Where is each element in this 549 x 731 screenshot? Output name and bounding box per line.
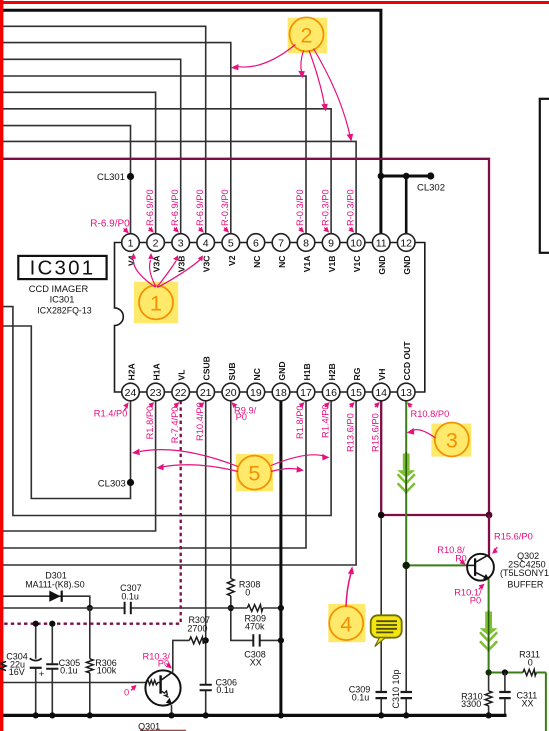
wire Q301 emitter to bus <box>171 705 173 714</box>
svg-text:0.1u: 0.1u <box>216 685 234 695</box>
svg-text:18: 18 <box>275 387 287 399</box>
transistor Q302 <box>467 554 494 581</box>
resistor R310 <box>485 691 492 706</box>
svg-text:SUB: SUB <box>227 362 237 380</box>
svg-text:Q301: Q301 <box>138 721 160 731</box>
label R-6.9/P0 pin4 <box>195 189 205 232</box>
svg-text:2700: 2700 <box>187 623 207 633</box>
svg-text:R-6.9/P0: R-6.9/P0 <box>90 218 130 229</box>
svg-text:XX: XX <box>250 658 262 668</box>
balloon 1 <box>134 282 178 324</box>
wire pin17 H1B from left edge <box>3 401 306 548</box>
wire maroon to Q302 collector <box>488 515 489 556</box>
svg-text:RG: RG <box>352 367 362 380</box>
wire C305 branch down <box>51 624 53 714</box>
svg-text:7: 7 <box>278 237 284 249</box>
junction pin13-Q302 base <box>403 562 410 569</box>
svg-text:11: 11 <box>376 237 387 249</box>
svg-text:R15.6/P0: R15.6/P0 <box>494 532 533 542</box>
svg-text:H2B: H2B <box>327 363 337 380</box>
wire pin18 GND down thick <box>279 401 282 717</box>
wire R310 branch <box>488 673 490 715</box>
connector box right edge <box>540 99 549 253</box>
wire pin22 VL dashed <box>3 401 181 624</box>
svg-text:H1B: H1B <box>302 363 312 380</box>
junction VH corner <box>378 512 385 519</box>
svg-text:P0: P0 <box>236 412 247 422</box>
capacitor C304 (electrolytic) <box>30 658 42 668</box>
transistor Q301 <box>145 670 180 705</box>
junction bus-C305 <box>49 712 55 718</box>
wire GND link pins 11-12 to CL302 <box>381 175 431 178</box>
capacitor C310 <box>401 692 413 698</box>
junction C308-GND <box>278 637 284 643</box>
junction bus-C306 <box>203 712 209 718</box>
flow arrow green on buffer output <box>480 612 498 636</box>
balloon 2 <box>288 17 327 53</box>
svg-text:20: 20 <box>225 387 237 399</box>
label R10.1/P0 Q302 emitter <box>454 584 484 606</box>
wire Q302 emitter green down <box>488 579 490 673</box>
svg-text:6: 6 <box>253 237 259 249</box>
svg-text:R-7.4/P0: R-7.4/P0 <box>170 406 180 443</box>
svg-text:0: 0 <box>245 588 250 598</box>
label R-0.3/P0 pin8 <box>295 189 305 232</box>
balloon 1 arrows to pins 1-4 <box>133 260 200 288</box>
junction bus-Q301 emitter <box>168 712 174 718</box>
svg-text:3300: 3300 <box>461 699 481 709</box>
node CL301 <box>127 173 134 180</box>
bus GND bottom thick <box>3 714 507 717</box>
label R1.8/P0 pin23 <box>145 402 155 439</box>
wire pin14 VH lower branch to C309 <box>380 515 382 714</box>
IC301 pins top row circles <box>122 234 415 252</box>
clipped text fragment bottom edge <box>140 730 186 731</box>
svg-text:0.1u: 0.1u <box>121 591 139 601</box>
svg-text:CL303: CL303 <box>98 479 126 490</box>
junction C311-R311 <box>502 669 508 675</box>
svg-text:2: 2 <box>153 237 159 249</box>
svg-text:21: 21 <box>200 387 212 399</box>
IC301 designator box <box>18 256 106 279</box>
wire Q301 base line from left edge <box>3 682 146 684</box>
svg-text:8: 8 <box>303 237 309 249</box>
svg-text:23: 23 <box>150 387 162 399</box>
wire output green down right corner <box>545 673 547 731</box>
svg-text:H1A: H1A <box>152 363 162 380</box>
IC301 pin numbers top row 1-12 <box>128 237 413 249</box>
svg-text:9: 9 <box>328 237 334 249</box>
resistor R308 <box>227 579 234 596</box>
svg-text:CL302: CL302 <box>417 183 445 194</box>
label R1.4/P0 pin24 <box>94 402 129 418</box>
junction bus-R310 <box>486 712 492 718</box>
wire pin3 V3B from left edge <box>3 59 181 234</box>
svg-text:3: 3 <box>178 237 184 249</box>
label R13.6/P0 pin15 <box>345 402 355 452</box>
svg-text:V3C: V3C <box>202 256 212 273</box>
svg-text:BUFFER: BUFFER <box>507 580 544 590</box>
svg-text:5: 5 <box>248 462 260 486</box>
IC301 pin names bottom row <box>127 341 413 381</box>
node CL303 <box>127 479 134 486</box>
svg-text:H2A: H2A <box>127 363 137 380</box>
wire pin1 V4 from left edge <box>3 126 131 234</box>
balloon 4 arrow to RG wire <box>346 566 354 606</box>
junction maroon right <box>486 512 493 519</box>
op-amp U1 IC301 body <box>115 243 425 393</box>
junction bus-C304 <box>33 712 39 718</box>
balloon 2 arrows to V-clock wires <box>238 45 350 136</box>
svg-text:13: 13 <box>400 387 412 399</box>
svg-text:4: 4 <box>203 237 209 249</box>
svg-text:IC301: IC301 <box>30 257 96 280</box>
svg-text:V2: V2 <box>227 255 237 266</box>
label R-6.9/P0 pin2 <box>145 189 155 232</box>
wire R306 branch down <box>89 608 91 714</box>
svg-text:V3B: V3B <box>177 256 187 273</box>
svg-text:5: 5 <box>228 237 234 249</box>
svg-text:P0: P0 <box>470 596 481 606</box>
svg-text:0: 0 <box>124 687 129 697</box>
svg-text:1: 1 <box>150 291 162 315</box>
flow arrow chevrons on CCD OUT <box>398 474 415 492</box>
wire R311 line <box>489 672 546 674</box>
svg-text:24: 24 <box>125 387 137 399</box>
svg-text:0.1u: 0.1u <box>352 692 370 702</box>
label R9.9/P0 pin20 <box>232 402 257 422</box>
svg-text:GND: GND <box>377 256 387 275</box>
balloon 3 arrow to CCD OUT wire <box>407 428 436 438</box>
svg-text:0: 0 <box>528 657 533 667</box>
svg-text:R-0.3/P0: R-0.3/P0 <box>220 189 230 226</box>
svg-text:R-0.3/P0: R-0.3/P0 <box>345 189 355 226</box>
wire R307 right to pin21 <box>204 639 205 641</box>
wire pin2 V3A from left edge <box>3 92 156 234</box>
svg-text:NC: NC <box>277 256 287 268</box>
label R15.6/P0 VH net <box>492 532 533 554</box>
wire pin13 CCD OUT green <box>406 401 467 566</box>
svg-text:CCD IMAGER: CCD IMAGER <box>29 284 89 294</box>
capacitor C308 <box>253 634 259 646</box>
flow arrow chevrons on buffer output <box>480 632 497 650</box>
svg-text:R-0.3/P0: R-0.3/P0 <box>320 189 330 226</box>
junction dashed-C305 <box>49 621 55 627</box>
svg-text:1: 1 <box>128 237 134 249</box>
capacitor C311 <box>499 692 511 698</box>
svg-text:VH: VH <box>377 369 387 381</box>
label 0 Q301 base <box>124 685 137 698</box>
label R-6.9/P0 pin3 <box>170 189 180 232</box>
label R1.4/P0 pin16 <box>320 402 330 438</box>
svg-text:17: 17 <box>300 387 312 399</box>
svg-text:R-6.9/P0: R-6.9/P0 <box>145 189 155 226</box>
capacitor C305 <box>46 664 58 669</box>
svg-text:0.1u: 0.1u <box>60 666 78 676</box>
svg-text:4: 4 <box>340 612 352 636</box>
junction pin12 <box>403 173 410 180</box>
svg-text:V1C: V1C <box>352 256 362 273</box>
svg-text:+: + <box>39 669 45 680</box>
junction D301-C307 <box>87 605 93 611</box>
resistor R306 <box>86 659 93 673</box>
wire pin24 H2A from left edge <box>3 326 131 499</box>
IC301 pin numbers bottom row 24-13 <box>125 387 413 399</box>
capacitor C309 <box>376 692 388 698</box>
svg-text:GND: GND <box>277 361 287 380</box>
svg-text:NC: NC <box>252 256 262 268</box>
balloon 3 <box>431 423 471 457</box>
clipped component fragment left edge <box>1 661 7 670</box>
svg-text:R-6.9/P0: R-6.9/P0 <box>195 189 205 226</box>
svg-text:V1A: V1A <box>302 256 312 273</box>
junction R309-GND <box>278 605 284 611</box>
wire pin9 V1B from left edge <box>3 109 331 234</box>
svg-text:15: 15 <box>350 387 362 399</box>
junction bus-C309 <box>378 712 384 718</box>
label R1.8/P0 pin17 <box>295 402 305 439</box>
wire GND top thick to pin 11 <box>3 10 381 234</box>
wire R309 to GND <box>231 607 281 609</box>
svg-text:14: 14 <box>375 387 387 399</box>
svg-text:GND: GND <box>402 256 412 275</box>
svg-text:R13.6/P0: R13.6/P0 <box>345 413 355 452</box>
svg-text:R-6.9/P0: R-6.9/P0 <box>170 189 180 226</box>
wire pin12 GND <box>405 176 408 234</box>
svg-text:R1.4/P0: R1.4/P0 <box>320 404 330 438</box>
svg-text:R1.8/P0: R1.8/P0 <box>145 406 155 440</box>
svg-text:VL: VL <box>177 370 187 381</box>
svg-text:R1.8/P0: R1.8/P0 <box>295 405 305 439</box>
svg-text:470k: 470k <box>245 622 265 632</box>
wire pin23 H1A from left edge <box>3 401 156 531</box>
svg-text:CSUB: CSUB <box>202 356 212 380</box>
balloon 5 arrows to H-clock wires <box>140 450 324 472</box>
capacitor C307 <box>125 602 131 614</box>
label R10.8/P0 Q302 base <box>437 545 466 565</box>
label R-0.3/P0 pin9 <box>320 189 330 232</box>
label R10.8/P0 pin13 <box>407 402 449 419</box>
diode D301 <box>49 591 63 602</box>
wire pin14 VH maroon <box>381 401 489 515</box>
junction R307-pin21 <box>203 637 209 643</box>
label R-0.3/P0 pin5 <box>220 189 230 232</box>
label R10.4/P0 pin21 <box>195 402 205 441</box>
svg-text:MA111-(K8).S0: MA111-(K8).S0 <box>25 579 84 589</box>
svg-text:R10.4/P0: R10.4/P0 <box>195 402 205 441</box>
resistor R307 <box>189 637 204 644</box>
wire D301 branch from left edge <box>3 596 90 608</box>
IC301 pin names top row <box>127 255 413 274</box>
svg-text:C310 10p: C310 10p <box>391 669 401 708</box>
wire C307 line from left edge to pin20 node <box>3 607 231 609</box>
svg-text:IC301: IC301 <box>50 295 75 305</box>
svg-text:12: 12 <box>400 237 412 249</box>
svg-text:(T5LSONY1): (T5LSONY1) <box>500 568 549 578</box>
svg-text:3: 3 <box>446 429 458 453</box>
wire pin21 CSUB down <box>205 401 207 714</box>
resistor R309 <box>247 605 263 612</box>
wire C311 branch <box>504 673 506 715</box>
wire Q301 collector up to R307 <box>173 640 190 671</box>
svg-text:22: 22 <box>175 387 187 399</box>
junction bus-R306 <box>87 712 93 718</box>
wire pin13 lower branch to C310 <box>405 565 407 714</box>
svg-text:R10.8/P0: R10.8/P0 <box>411 409 450 419</box>
wire VM maroon net from left edge down right side <box>3 159 489 515</box>
svg-text:2: 2 <box>301 23 313 47</box>
svg-text:16V: 16V <box>9 667 25 677</box>
wire pin4 V3C from left edge <box>3 26 206 234</box>
svg-text:NC: NC <box>252 368 262 380</box>
wire pin20 SUB down <box>231 401 281 641</box>
label R10.3/P0 Q301 collector <box>143 651 172 668</box>
wire pin10 V1C from left edge <box>3 141 356 234</box>
svg-text:R15.6/P0: R15.6/P0 <box>370 413 380 452</box>
junction bus-GND18 <box>278 712 284 718</box>
capacitor C306 <box>200 685 212 691</box>
svg-text:CCD OUT: CCD OUT <box>402 341 412 381</box>
wire pin16 H2B from left edge <box>3 307 331 516</box>
wire C304 branch down <box>35 624 37 714</box>
node CL302 <box>427 172 434 179</box>
svg-text:R-0.3/P0: R-0.3/P0 <box>295 189 305 226</box>
wire pin8 V1A from left edge <box>3 76 306 234</box>
svg-text:19: 19 <box>250 387 262 399</box>
svg-text:R1.4/P0: R1.4/P0 <box>94 409 128 419</box>
junction pin20-R309 <box>228 605 234 611</box>
junction bus-C310 <box>403 712 409 718</box>
svg-text:ICX282FQ-13: ICX282FQ-13 <box>37 306 91 316</box>
IC301 pins bottom row circles <box>122 383 415 401</box>
label R15.6/P0 pin14 <box>370 402 380 452</box>
resistor R311 <box>523 669 537 675</box>
note icon (comment bubble) <box>371 615 402 646</box>
junction Q302 emitter node <box>486 669 492 675</box>
label R-6.9/P0 pin1 <box>90 218 130 233</box>
wire pin5 V2 from left edge <box>3 43 231 234</box>
svg-text:16: 16 <box>325 387 337 399</box>
label R-0.3/P0 pin10 <box>345 189 355 232</box>
balloon 4 <box>328 604 365 642</box>
balloon 5 <box>236 454 273 491</box>
flow arrow green on CCD OUT <box>397 454 415 478</box>
label R-7.4/P0 pin22 <box>170 402 180 443</box>
svg-text:100k: 100k <box>97 666 117 676</box>
svg-text:V1B: V1B <box>327 256 337 273</box>
junction pin11 <box>378 173 385 180</box>
wire pin15 RG from left edge <box>3 401 356 565</box>
junction dashed-C304 <box>33 621 39 627</box>
svg-text:CL301: CL301 <box>97 172 125 183</box>
svg-text:10: 10 <box>350 237 362 249</box>
svg-text:XX: XX <box>521 699 533 709</box>
